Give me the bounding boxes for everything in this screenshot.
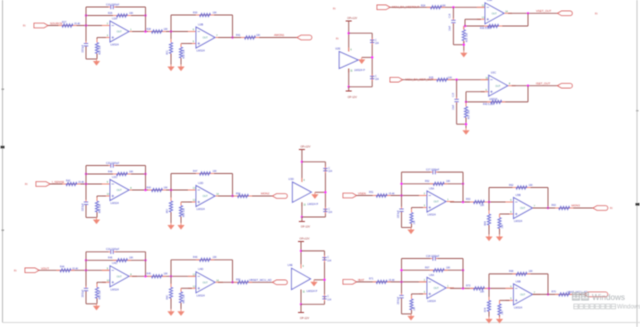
wire feedback resistor R52 rail bbox=[402, 183, 464, 185]
svg-text:U3D: U3D bbox=[288, 177, 293, 181]
resistor R50 10K output bbox=[234, 281, 238, 283]
wire U4D feedback down bbox=[232, 260, 234, 283]
port IBAT bbox=[343, 280, 357, 285]
svg-text:15.4K: 15.4K bbox=[389, 279, 396, 282]
svg-text:U4D: U4D bbox=[198, 267, 203, 271]
svg-text:2200pF: 2200pF bbox=[398, 296, 400, 304]
wire U6B feedback up bbox=[488, 274, 490, 289]
wire R76 top lead bbox=[499, 300, 501, 304]
svg-text:R36 5.23K: R36 5.23K bbox=[480, 27, 492, 30]
svg-text:10K: 10K bbox=[414, 220, 416, 225]
resistor R47 10K feedback bbox=[196, 173, 200, 175]
svg-text:10K: 10K bbox=[448, 77, 453, 80]
wire feedback resistor R46 rail bbox=[86, 259, 146, 261]
resistor R70 10K output bbox=[555, 293, 559, 295]
op-amp U3C bbox=[481, 71, 516, 101]
sheet border left bbox=[2, 0, 4, 323]
wire U2C pin3 to bias resistor bbox=[97, 195, 106, 197]
ground stage1 of U4C bbox=[96, 304, 98, 306]
wire U2C output to U2D input bbox=[132, 189, 196, 191]
svg-text:LM324 P: LM324 P bbox=[307, 289, 318, 293]
svg-text:OP-12V: OP-12V bbox=[301, 225, 310, 229]
ground R31 bbox=[170, 65, 172, 67]
svg-text:15.4K: 15.4K bbox=[72, 267, 79, 270]
ground stage1 of U2A bbox=[96, 59, 98, 61]
capacitor U2E bypass C lower 104 bbox=[371, 74, 373, 76]
junction feedback right U2C bbox=[144, 173, 146, 175]
junction U2A output feedback tap bbox=[144, 30, 146, 32]
svg-text:R30: R30 bbox=[193, 11, 198, 14]
wire U3D V+ to bypass caps bbox=[302, 161, 326, 163]
power flag OP-12V for U2E bbox=[346, 90, 352, 92]
svg-text:OP-12V: OP-12V bbox=[300, 316, 309, 320]
resistor R45 10K interstage bbox=[148, 275, 152, 277]
wire U2D feedback down bbox=[232, 174, 234, 197]
svg-text:R57: R57 bbox=[167, 208, 169, 213]
op-amp U2A bbox=[102, 16, 137, 46]
wire C16 bottom lead bbox=[85, 47, 87, 60]
svg-text:IN: IN bbox=[23, 25, 26, 28]
svg-text:OUT: OUT bbox=[117, 31, 123, 34]
svg-text:LM324: LM324 bbox=[197, 207, 206, 211]
svg-text:VOUT: VOUT bbox=[41, 266, 49, 270]
wire bypass mid to ground U3D bbox=[315, 191, 326, 193]
svg-text:10K: 10K bbox=[213, 256, 218, 259]
capacitor U3D bypass C lower 104 bbox=[324, 207, 326, 209]
ground stage1 U6A bbox=[410, 314, 412, 316]
port MON2 output bbox=[273, 194, 288, 199]
resistor R62 10K feedback bbox=[513, 187, 517, 189]
wire OP+12V rail down to U3D pin4 bbox=[301, 150, 303, 183]
svg-text:IBAT: IBAT bbox=[358, 278, 364, 282]
wire feedback resistor R48 rail bbox=[86, 173, 146, 175]
wire feedback cap C17 left bbox=[402, 171, 431, 173]
wire feedback vertical U5A bbox=[462, 172, 464, 202]
op-amp power section U2E bbox=[335, 47, 365, 73]
wire input to op-amp U6A bbox=[357, 281, 428, 283]
wire R65 bottom lead bbox=[499, 229, 501, 235]
ground stage1 of U2C bbox=[96, 218, 98, 220]
resistor R72 10K vertical bbox=[411, 295, 413, 299]
svg-text:I_SENSE: I_SENSE bbox=[52, 180, 64, 184]
svg-text:R70: R70 bbox=[552, 291, 557, 294]
ground R58 bbox=[180, 223, 182, 225]
wire R60 top lead bbox=[170, 276, 172, 287]
ground R32 bbox=[180, 65, 182, 67]
wire U2A pin3 to bias resistor bbox=[97, 37, 106, 39]
svg-text:LM324 P: LM324 P bbox=[354, 68, 365, 72]
wire R35 top lead bbox=[463, 26, 465, 30]
node R25 output junction bbox=[455, 79, 457, 81]
resistor R73 10K interstage bbox=[470, 287, 474, 289]
svg-text:10K: 10K bbox=[446, 180, 451, 183]
wire U3A output to port VSET_OUT bbox=[508, 12, 558, 14]
svg-text:R44: R44 bbox=[60, 266, 65, 269]
junction U3C feedback left bbox=[465, 101, 467, 103]
wire bypass cap column U2E bbox=[371, 33, 373, 87]
svg-text:OUT: OUT bbox=[520, 294, 526, 297]
resistor R67 10K bbox=[430, 269, 434, 271]
node input junction of U2C bbox=[85, 183, 87, 185]
wire ground rail U3C bbox=[457, 123, 466, 125]
wire R31 bottom lead bbox=[170, 54, 172, 65]
wire feedback cap C18 left bbox=[402, 258, 431, 260]
wire C23 bottom lead bbox=[85, 291, 87, 304]
watermark activate windows line2 bbox=[574, 304, 616, 309]
resistor R28 10K interstage bbox=[148, 31, 152, 33]
wire U2D feedback rail bbox=[171, 173, 233, 175]
svg-text:11: 11 bbox=[303, 292, 306, 294]
svg-text:10K: 10K bbox=[529, 184, 534, 187]
svg-text:10K: 10K bbox=[213, 11, 218, 14]
port VSET_OUT bbox=[558, 11, 573, 16]
power flag OP-12V for U4E bbox=[298, 312, 304, 314]
svg-text:C: C bbox=[375, 76, 377, 78]
wire feedback cap C10 left segment bbox=[86, 6, 109, 8]
wire bias resistor R59 bottom lead bbox=[96, 298, 98, 304]
resistor R46 10K bbox=[113, 259, 117, 261]
junction U2E V- branch bbox=[348, 86, 350, 88]
watermark activate windows line1 bbox=[573, 293, 589, 300]
zone tick left faint upper bbox=[2, 89, 5, 90]
wire input to op-amp U3A bbox=[390, 6, 485, 8]
wire U3D V- to bypass caps bbox=[302, 216, 326, 218]
wire feedback cap C17 right bbox=[437, 171, 463, 173]
svg-text:15.4K: 15.4K bbox=[78, 181, 85, 184]
svg-text:IN: IN bbox=[14, 269, 17, 272]
wire U5B output to port bbox=[533, 207, 594, 209]
svg-text:104: 104 bbox=[375, 43, 380, 45]
ground R74 bbox=[488, 317, 490, 319]
svg-text:R35 10K: R35 10K bbox=[466, 33, 468, 42]
wire R74 bottom lead bbox=[488, 311, 490, 317]
svg-text:MON3: MON3 bbox=[572, 204, 581, 208]
port MCU_DA_VSETOUT bbox=[377, 5, 390, 10]
sheet border right bbox=[636, 0, 638, 327]
resistor R48 10K bbox=[113, 173, 117, 175]
wire bias resistor R59 top lead bbox=[96, 282, 98, 287]
svg-text:2200pF: 2200pF bbox=[82, 203, 84, 211]
svg-text:R27: R27 bbox=[62, 21, 67, 24]
zone tick left bbox=[1, 146, 5, 149]
node U5B input junction bbox=[488, 201, 490, 203]
resistor R60 10K vertical bbox=[170, 284, 172, 288]
capacitor C15 10nF bbox=[456, 97, 458, 99]
svg-text:R64: R64 bbox=[485, 221, 487, 226]
wire R35a top lead bbox=[411, 208, 413, 213]
junction bypass mid U4E bbox=[323, 279, 325, 281]
junction U4D output bbox=[231, 281, 233, 283]
ground bypass U4E bbox=[313, 280, 315, 282]
wire feedback cap C10 right segment bbox=[115, 6, 145, 8]
wire bypass mid to ground U4E bbox=[314, 279, 325, 281]
wire feedback cap C18 right bbox=[437, 258, 463, 260]
svg-text:U5B: U5B bbox=[516, 193, 521, 197]
wire U6B output to port bbox=[533, 293, 594, 295]
ground bypass U3D bbox=[314, 192, 316, 194]
capacitor C18 2200pF bbox=[431, 258, 433, 260]
svg-text:C: C bbox=[328, 209, 330, 211]
svg-text:OUT: OUT bbox=[520, 207, 526, 210]
junction U6A output bbox=[462, 287, 464, 289]
wire feedback cap C19 right segment bbox=[115, 251, 145, 253]
wire C15 bottom lead bbox=[456, 103, 458, 124]
resistor R51 15.4K bbox=[373, 195, 377, 197]
svg-text:U4E: U4E bbox=[288, 263, 293, 267]
wire U2E pin11 down bbox=[348, 69, 350, 87]
svg-text:U6A: U6A bbox=[429, 273, 434, 277]
wire U5B feedback down bbox=[547, 188, 549, 209]
wire ground rail stage1 U6A bbox=[402, 313, 412, 315]
wire R57 top lead bbox=[170, 190, 172, 201]
svg-text:R42: R42 bbox=[66, 179, 71, 182]
junction feedback right U2A bbox=[144, 14, 146, 16]
svg-text:10K: 10K bbox=[480, 204, 485, 207]
wire ground rail stage1 bbox=[86, 217, 97, 219]
svg-text:10K: 10K bbox=[529, 270, 534, 273]
wire ground rail stage1 bbox=[86, 303, 97, 305]
wire U3A feedback rail bbox=[465, 25, 528, 27]
svg-text:OP+12V: OP+12V bbox=[347, 16, 357, 20]
junction feedback right U4C bbox=[144, 259, 146, 261]
junction bypass mid U2E bbox=[371, 56, 373, 58]
wire vertical node column U5A bbox=[401, 172, 403, 208]
wire R64 top lead bbox=[488, 202, 490, 214]
node U6B input junction bbox=[488, 287, 490, 289]
wire down to OP-12V flag U3D bbox=[301, 217, 303, 222]
port ISET_OUT bbox=[558, 83, 573, 88]
svg-text:LM324: LM324 bbox=[197, 293, 206, 297]
port SOURCE bbox=[34, 23, 48, 28]
svg-text:10K: 10K bbox=[129, 257, 134, 260]
junction U4C output feedback tap bbox=[144, 275, 146, 277]
resistor R30 10K feedback bbox=[196, 14, 200, 16]
wire U2B pin to R32 bbox=[181, 43, 192, 45]
wire U4D feedback up bbox=[170, 260, 172, 277]
svg-text:R49: R49 bbox=[193, 256, 198, 259]
op-amp U4D bbox=[188, 267, 223, 297]
node U2D input junction bbox=[170, 189, 172, 191]
wire feedback cap C20 right segment bbox=[115, 165, 145, 167]
wire input to op-amp U3C bbox=[403, 79, 489, 81]
svg-text:10K: 10K bbox=[414, 306, 416, 311]
svg-text:R59 10K: R59 10K bbox=[100, 290, 102, 299]
wire U3C feedback rail bbox=[466, 101, 528, 103]
svg-text:10K: 10K bbox=[129, 170, 134, 173]
wire R65 top lead bbox=[499, 214, 501, 218]
wire input net to op-amp U2C pin2 bbox=[50, 183, 110, 185]
resistor R74 10K vertical bbox=[488, 297, 490, 301]
wire bypass cap column U4E bbox=[324, 251, 326, 304]
wire bypass cap column U3D bbox=[324, 162, 326, 217]
wire R35a bottom lead bbox=[411, 224, 413, 228]
capacitor C17 2200pF bbox=[431, 171, 433, 173]
svg-text:R62: R62 bbox=[509, 184, 514, 187]
svg-text:R52: R52 bbox=[425, 180, 430, 183]
wire U3C pin9 branch bbox=[466, 91, 485, 93]
junction feedback left U2C bbox=[85, 173, 87, 175]
junction feedback left U4C bbox=[85, 259, 87, 261]
resistor R71 15.4K bbox=[373, 281, 377, 283]
svg-text:R68: R68 bbox=[509, 270, 514, 273]
wire U3C feedback down bbox=[527, 86, 529, 102]
wire R76 bottom lead bbox=[499, 315, 501, 317]
junction feedback left U2A bbox=[85, 14, 87, 16]
wire U2B output to port bbox=[218, 37, 297, 39]
svg-text:R74: R74 bbox=[485, 307, 487, 312]
junction bypass mid U3D bbox=[324, 191, 326, 193]
wire U5B feedback up bbox=[488, 188, 490, 203]
svg-text:R73: R73 bbox=[466, 285, 471, 288]
resistor R61 10K vertical bbox=[180, 288, 182, 292]
op-amp U5A bbox=[419, 186, 454, 216]
svg-text:U2E: U2E bbox=[335, 47, 340, 51]
ground R64 bbox=[488, 235, 490, 237]
resistor R36 5.23K feedback bbox=[484, 25, 488, 27]
svg-text:R45: R45 bbox=[147, 273, 152, 276]
svg-text:U2A: U2A bbox=[112, 16, 117, 20]
wire bias resistor R56 bottom lead bbox=[96, 212, 98, 218]
wire bypass mid to ground U2E bbox=[362, 56, 373, 58]
wire U6B pin to R76 bbox=[500, 299, 510, 301]
svg-text:2200pF: 2200pF bbox=[398, 210, 400, 218]
junction U2C output feedback tap bbox=[144, 189, 146, 191]
junction U6B output bbox=[547, 293, 549, 295]
svg-text:LM324: LM324 bbox=[428, 213, 437, 217]
resistor R56 10K vertical bbox=[96, 198, 98, 202]
wire ground rail stage1 U5A bbox=[402, 227, 412, 229]
zone tick left faint lower bbox=[2, 230, 5, 231]
wire R57 bottom lead bbox=[170, 212, 172, 223]
svg-text:OP-12V: OP-12V bbox=[348, 95, 357, 99]
svg-text:IN: IN bbox=[595, 13, 598, 16]
wire ground rail U3A bbox=[453, 44, 463, 46]
node input junction U5A bbox=[400, 194, 402, 196]
wire R58 bottom lead bbox=[180, 217, 182, 224]
junction U2E V+ branch bbox=[348, 32, 350, 34]
capacitor C26 2200pF to ground bbox=[401, 207, 403, 209]
svg-text:10K: 10K bbox=[502, 224, 504, 229]
wire C14 bottom lead bbox=[452, 24, 454, 45]
ground R60 bbox=[170, 309, 172, 311]
svg-text:U6B: U6B bbox=[516, 279, 521, 283]
svg-text:U3C: U3C bbox=[491, 71, 496, 75]
wire U4D output to port bbox=[218, 281, 273, 283]
svg-text:15.4K: 15.4K bbox=[389, 193, 396, 196]
svg-text:OUT: OUT bbox=[495, 85, 501, 88]
op-amp power section U3D bbox=[288, 177, 318, 207]
svg-text:R47: R47 bbox=[193, 170, 198, 173]
svg-text:AMON1: AMON1 bbox=[274, 33, 285, 37]
wire R58 top lead bbox=[180, 202, 182, 206]
node U4D input junction bbox=[170, 275, 172, 277]
port MON3 output bbox=[593, 206, 608, 211]
svg-text:R41: R41 bbox=[236, 34, 241, 37]
svg-text:R37 10K: R37 10K bbox=[469, 110, 471, 119]
wire vertical input node column U2C bbox=[85, 166, 87, 202]
svg-text:4: 4 bbox=[303, 266, 305, 268]
svg-text:2200pF: 2200pF bbox=[82, 44, 84, 52]
svg-text:IN: IN bbox=[610, 207, 613, 210]
resistor R32 10K vertical bbox=[180, 44, 182, 48]
wire input to op-amp U5A bbox=[357, 195, 428, 197]
node R24 output junction bbox=[452, 6, 454, 8]
capacitor C27 2200pF to ground bbox=[401, 293, 403, 295]
wire feedback vertical U6A bbox=[462, 259, 464, 289]
wire U4D pin to R61 bbox=[181, 287, 192, 289]
capacitor C20 2200pF bbox=[109, 165, 111, 167]
wire U2D feedback up bbox=[170, 174, 172, 191]
ground stage1 U5A bbox=[410, 228, 412, 230]
svg-text:R43: R43 bbox=[147, 186, 152, 189]
wire R37 bottom lead bbox=[465, 118, 467, 129]
svg-text:11: 11 bbox=[350, 71, 353, 73]
capacitor U4E bypass C upper 104 bbox=[324, 255, 326, 257]
resistor R64 10K vertical bbox=[488, 211, 490, 215]
wire U2B feedback down bbox=[232, 15, 234, 38]
junction ground rail U3C bbox=[465, 123, 467, 125]
svg-text:104: 104 bbox=[328, 171, 333, 173]
svg-text:R54: R54 bbox=[236, 192, 241, 195]
ground U3C network bbox=[465, 128, 467, 130]
svg-text:4: 4 bbox=[350, 49, 352, 51]
wire vertical node column U6A bbox=[401, 259, 403, 295]
resistor R35 10K vertical bbox=[463, 26, 465, 30]
svg-text:104: 104 bbox=[328, 212, 333, 214]
junction U4E V+ branch bbox=[300, 250, 302, 252]
wire C26 bottom lead bbox=[401, 212, 403, 228]
svg-text:R40 5.23K: R40 5.23K bbox=[483, 103, 495, 106]
wire U4D feedback rail bbox=[171, 259, 233, 261]
svg-text:OUT: OUT bbox=[203, 195, 209, 198]
svg-text:LM324: LM324 bbox=[111, 201, 120, 205]
capacitor C23 2200pF to ground bbox=[85, 286, 87, 288]
svg-text:R28: R28 bbox=[147, 28, 152, 31]
wire feedback cap C20 left segment bbox=[86, 165, 109, 167]
svg-text:R48: R48 bbox=[108, 170, 113, 173]
wire OP+12V rail down to U2E pin4 bbox=[348, 21, 350, 52]
wire R32 top lead bbox=[180, 44, 182, 48]
wire R32 bottom lead bbox=[180, 58, 182, 65]
capacitor C14 10nF bbox=[452, 18, 454, 20]
svg-text:10K: 10K bbox=[164, 273, 169, 276]
wire feedback vertical U2A bbox=[145, 7, 147, 32]
svg-text:LM324: LM324 bbox=[111, 43, 120, 47]
svg-text:C: C bbox=[375, 40, 377, 42]
wire U2E V- to bypass caps bbox=[349, 86, 373, 88]
svg-text:VSEN: VSEN bbox=[358, 192, 366, 196]
svg-text:2200pF: 2200pF bbox=[82, 289, 84, 297]
port VBSET_MCU_AD output bbox=[273, 280, 288, 285]
resistor R44 15.4K bbox=[57, 269, 61, 271]
svg-text:VBAT_MCU_AD: VBAT_MCU_AD bbox=[567, 290, 587, 294]
wire feedback vertical U2C bbox=[145, 166, 147, 191]
svg-text:LM324 P: LM324 P bbox=[307, 202, 318, 206]
svg-text:IN: IN bbox=[333, 8, 336, 11]
svg-text:Windows: Windows bbox=[617, 304, 640, 311]
wire C15 top lead bbox=[456, 80, 458, 98]
svg-text:R63: R63 bbox=[552, 204, 557, 207]
svg-text:R50: R50 bbox=[236, 279, 241, 282]
svg-text:104: 104 bbox=[327, 299, 332, 301]
wire U4C output to U4D input bbox=[132, 275, 196, 277]
svg-text:OUT: OUT bbox=[434, 201, 440, 204]
op-amp power section U4E bbox=[288, 263, 318, 294]
svg-text:R53: R53 bbox=[466, 198, 471, 201]
svg-text:R32 10K: R32 10K bbox=[184, 49, 186, 58]
svg-text:11: 11 bbox=[303, 205, 306, 207]
resistor R58 10K vertical bbox=[180, 202, 182, 206]
